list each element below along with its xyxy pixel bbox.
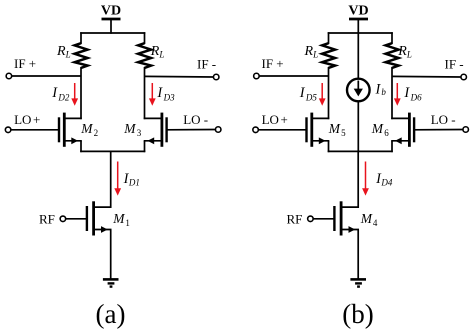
svg-text:R: R (150, 44, 160, 59)
svg-text:RF: RF (39, 212, 55, 227)
svg-text:D3: D3 (163, 92, 175, 102)
svg-text:R: R (397, 44, 407, 59)
wire center branch lower (b) (357, 101, 359, 152)
svg-text:L: L (312, 50, 318, 60)
wire left branch lower (a) (80, 141, 82, 152)
wire LO- lead (b) (414, 129, 463, 131)
terminal RF (a) (60, 216, 66, 222)
svg-text:LO: LO (262, 112, 279, 127)
svg-text:M: M (360, 211, 373, 226)
svg-text:D6: D6 (410, 92, 422, 102)
svg-text:b: b (381, 87, 386, 97)
svg-text:D2: D2 (57, 92, 69, 102)
wire RF lead (b) (313, 218, 334, 220)
wire left branch lower (b) (328, 141, 330, 152)
svg-text:L: L (158, 50, 164, 60)
label ID3 (a) (156, 85, 175, 102)
svg-text:LO -: LO - (431, 112, 456, 127)
label M2 (80, 121, 98, 138)
resistor RL right (b) (386, 43, 399, 68)
svg-text:I: I (403, 85, 410, 101)
label ID2 (a) (51, 85, 70, 102)
svg-text:R: R (56, 44, 66, 59)
wire ground stem (b) (357, 230, 359, 280)
wire common source rail (b) (328, 150, 393, 152)
svg-text:LO -: LO - (183, 112, 208, 127)
terminal IF+ (a) (6, 73, 12, 79)
label M5 (328, 121, 346, 138)
label ID4 (b) (375, 171, 393, 188)
terminal LO+ (b) (253, 127, 259, 133)
wire VD stem (b) (357, 20, 359, 34)
svg-text:5: 5 (341, 128, 346, 138)
svg-text:IF -: IF - (445, 57, 464, 72)
label M6 (371, 121, 389, 138)
wire LO+ lead (b) (259, 129, 307, 131)
terminal LO+ (a) (5, 127, 11, 133)
svg-text:D5: D5 (305, 92, 317, 102)
svg-text:L: L (406, 50, 412, 60)
power VD bar (a) (102, 18, 121, 21)
label M3 (123, 121, 141, 138)
terminal RF (b) (308, 216, 314, 222)
wire right branch lower (a) (144, 141, 146, 152)
transistor M6 (391, 113, 414, 147)
svg-text:RF: RF (287, 212, 303, 227)
transistor M3 (144, 113, 167, 147)
svg-text:4: 4 (373, 218, 378, 228)
current source Ib (b) (347, 79, 370, 102)
wire right branch (a) (144, 67, 146, 119)
ground (b) (350, 279, 366, 286)
svg-text:L: L (65, 50, 71, 60)
svg-text:M: M (328, 121, 341, 136)
terminal IF+ (b) (254, 73, 260, 79)
wire IF+ lead (a) (12, 75, 81, 77)
wire left branch top (b) (328, 32, 330, 44)
label Ib (b) (375, 81, 387, 97)
wire IF- lead (b) (392, 75, 461, 78)
transistor M1 (87, 201, 112, 235)
wire right branch (b) (391, 67, 393, 119)
wire right branch top (b) (391, 32, 393, 44)
label M4 (360, 211, 378, 228)
svg-text:D4: D4 (380, 178, 392, 188)
current arrow ID6 (b) (394, 83, 401, 106)
wire tail stem (b) (357, 151, 359, 208)
svg-text:2: 2 (94, 128, 99, 138)
svg-text:R: R (304, 44, 314, 59)
wire center branch upper (b) (357, 33, 359, 79)
svg-text:VD: VD (348, 4, 368, 19)
current arrow ID5 (b) (319, 83, 326, 106)
wire left branch (b) (328, 67, 330, 119)
wire LO+ lead (a) (11, 129, 59, 131)
current arrow ID4 (b) (362, 162, 369, 196)
wire common source rail (a) (80, 150, 145, 152)
svg-text:+: + (33, 112, 40, 127)
wire VD stem (a) (110, 20, 112, 34)
svg-text:I: I (299, 85, 306, 101)
label ID5 (b) (299, 85, 318, 102)
svg-text:IF +: IF + (262, 56, 284, 71)
svg-text:M: M (112, 211, 125, 226)
svg-text:VD: VD (101, 4, 121, 19)
wire right branch top (a) (144, 32, 146, 44)
svg-text:LO: LO (14, 112, 31, 127)
svg-text:I: I (51, 85, 58, 101)
power VD bar (b) (349, 18, 368, 21)
wire ground stem (a) (110, 230, 112, 280)
svg-text:6: 6 (384, 128, 389, 138)
resistor RL left (b) (322, 43, 335, 68)
terminal IF- (a) (213, 74, 219, 80)
svg-text:(a): (a) (96, 299, 126, 329)
svg-text:+: + (281, 112, 288, 127)
svg-text:1: 1 (125, 218, 129, 228)
svg-text:M: M (371, 121, 384, 136)
ground (a) (103, 279, 119, 286)
svg-text:IF -: IF - (197, 57, 216, 72)
svg-text:IF +: IF + (14, 56, 36, 71)
wire left branch (a) (80, 67, 82, 119)
terminal LO- (a) (215, 127, 221, 133)
wire right branch lower (b) (391, 141, 393, 152)
label M1 (112, 211, 130, 228)
wire top rail (b) (328, 32, 393, 34)
wire RF lead (a) (66, 218, 87, 220)
wire IF- lead (a) (145, 75, 214, 78)
svg-text:D1: D1 (128, 178, 140, 188)
wire left branch top (a) (80, 32, 82, 44)
wire LO- lead (a) (167, 129, 216, 131)
current arrow ID3 (a) (149, 83, 156, 106)
wire top rail (a) (80, 32, 145, 34)
current arrow ID1 (a) (114, 162, 121, 196)
terminal IF- (b) (461, 74, 467, 80)
svg-text:I: I (156, 85, 163, 101)
resistor RL right (a) (138, 43, 151, 68)
transistor M5 (307, 113, 330, 147)
label ID1 (a) (123, 171, 140, 188)
svg-text:M: M (80, 121, 93, 136)
transistor M4 (334, 201, 359, 235)
wire tail stem (a) (110, 151, 112, 208)
resistor RL left (a) (75, 43, 88, 68)
label ID6 (b) (403, 85, 422, 102)
svg-text:M: M (123, 121, 136, 136)
svg-text:3: 3 (137, 128, 142, 138)
wire IF+ lead (b) (259, 75, 328, 77)
terminal LO- (b) (463, 127, 469, 133)
svg-text:(b): (b) (342, 299, 373, 329)
transistor M2 (59, 113, 82, 147)
current arrow ID2 (a) (71, 83, 78, 106)
